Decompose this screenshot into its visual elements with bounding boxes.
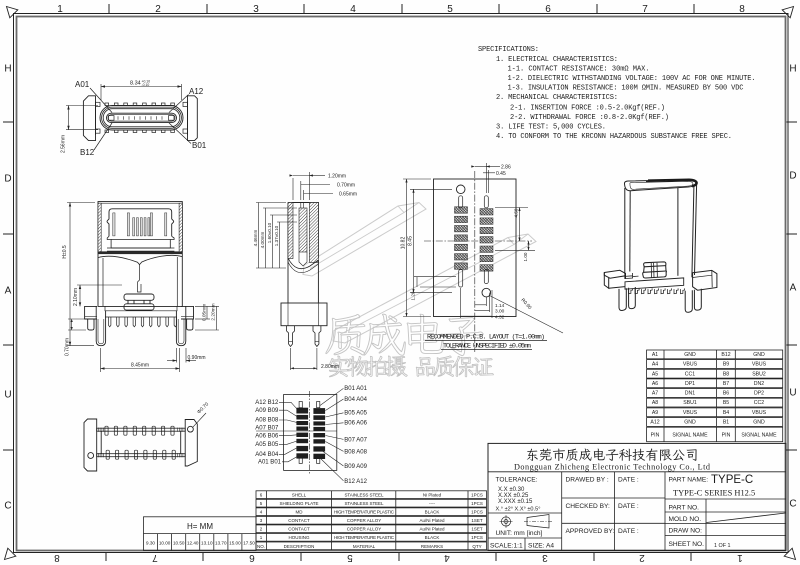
phi 0.70 label xyxy=(193,413,206,427)
svg-text:8.45: 8.45 xyxy=(408,236,414,246)
top pin row xyxy=(105,426,174,435)
tongue latch right xyxy=(169,116,175,121)
svg-text:VBUS: VBUS xyxy=(683,410,698,416)
svg-text:-0.10: -0.10 xyxy=(142,83,150,87)
svg-text:SIGNAL NAME: SIGNAL NAME xyxy=(741,433,777,439)
svg-text:DP2: DP2 xyxy=(754,391,764,397)
svg-text:13.10: 13.10 xyxy=(201,541,213,546)
iso left flange xyxy=(604,270,625,278)
svg-text:A9: A9 xyxy=(652,410,658,416)
svg-text:4.50: 4.50 xyxy=(514,208,519,217)
svg-text:DRAW NO:: DRAW NO: xyxy=(669,528,703,535)
break curve xyxy=(288,258,318,269)
svg-text:B01: B01 xyxy=(192,141,207,150)
svg-text:1-3. INSULATION RESISTANCE: 10: 1-3. INSULATION RESISTANCE: 100M ΩMIN. M… xyxy=(508,85,744,93)
shell right wall hatched xyxy=(179,203,182,252)
corner mark BL xyxy=(5,548,16,559)
svg-text:A8: A8 xyxy=(652,400,658,406)
dim 2.80 bottom xyxy=(291,348,340,370)
right mount bracket xyxy=(188,96,198,141)
projection symbol xyxy=(500,515,553,529)
svg-text:1.60±0.10: 1.60±0.10 xyxy=(267,222,272,243)
shell top weld bumps xyxy=(105,103,174,133)
svg-text:B01 A01: B01 A01 xyxy=(344,386,367,392)
svg-text:1.20mm: 1.20mm xyxy=(328,174,346,180)
svg-text:DN1: DN1 xyxy=(685,391,695,397)
dim 0.90 xyxy=(167,348,206,363)
left bracket tabs xyxy=(96,102,101,106)
svg-text:H: H xyxy=(789,64,796,75)
svg-text:9.30: 9.30 xyxy=(146,541,155,546)
BOM material table xyxy=(256,491,487,499)
svg-text:3.00: 3.00 xyxy=(495,309,505,315)
svg-text:B6: B6 xyxy=(723,391,729,397)
center contact tail xyxy=(138,265,142,292)
svg-text:A6: A6 xyxy=(652,381,658,387)
svg-text:A07 B07: A07 B07 xyxy=(255,425,279,431)
svg-text:H: H xyxy=(4,64,11,75)
svg-text:1PCS: 1PCS xyxy=(471,501,483,506)
dim 8.45 xyxy=(101,348,180,372)
pin assignment table xyxy=(647,350,783,359)
svg-text:U: U xyxy=(789,388,796,399)
svg-text:1PCS: 1PCS xyxy=(471,510,483,515)
svg-text:SIZE: A4: SIZE: A4 xyxy=(528,543,554,550)
svg-text:10.00: 10.00 xyxy=(159,541,171,546)
svg-text:NO.: NO. xyxy=(257,544,265,549)
pinmap top stubs xyxy=(299,402,302,408)
svg-text:B12 A12: B12 A12 xyxy=(344,479,367,485)
pinmap bottom stubs xyxy=(299,457,302,463)
pinmap centerline xyxy=(309,391,311,474)
svg-text:DRAWED BY :: DRAWED BY : xyxy=(566,477,609,484)
svg-text:A04 B04: A04 B04 xyxy=(255,452,279,458)
svg-text:SHIELDING PLATE: SHIELDING PLATE xyxy=(280,501,319,506)
svg-text:2.80mm: 2.80mm xyxy=(321,364,339,370)
dim 0.70 xyxy=(65,319,87,356)
svg-text:SIGNAL NAME: SIGNAL NAME xyxy=(672,433,708,439)
svg-text:2.56mm: 2.56mm xyxy=(61,135,67,153)
svg-text:TOLERANCE:: TOLERANCE: xyxy=(496,477,538,484)
svg-text:A05 B05: A05 B05 xyxy=(255,442,279,448)
base comb plate xyxy=(105,306,177,310)
iso top dark edge xyxy=(648,180,697,186)
svg-text:10.82: 10.82 xyxy=(401,237,407,250)
svg-text:SPECIFICATIONS:: SPECIFICATIONS: xyxy=(478,46,539,54)
inner housing xyxy=(107,209,174,237)
svg-text:GND: GND xyxy=(684,352,696,358)
svg-text:CHECKED BY:: CHECKED BY: xyxy=(566,503,611,510)
pcb outline xyxy=(434,179,517,317)
svg-text:A1: A1 xyxy=(652,352,658,358)
svg-text:A01 B01: A01 B01 xyxy=(258,460,282,466)
svg-text:STAINLESS STEEL: STAINLESS STEEL xyxy=(345,493,384,498)
part name cells xyxy=(665,498,786,500)
svg-text:4.46mm: 4.46mm xyxy=(253,230,258,247)
svg-text:Dongguan Zhicheng Electronic T: Dongguan Zhicheng Electronic Technology … xyxy=(514,462,710,471)
svg-text:STAINLESS STEEL: STAINLESS STEEL xyxy=(345,501,384,506)
watermark text subtitle xyxy=(329,356,493,377)
svg-text:A7: A7 xyxy=(652,391,658,397)
title block outline xyxy=(488,443,786,550)
svg-text:A12: A12 xyxy=(189,87,204,96)
svg-text:HIGH TEMPERATURE PLASTIC: HIGH TEMPERATURE PLASTIC xyxy=(334,535,395,540)
comb teeth xyxy=(109,317,177,327)
iso top face xyxy=(624,180,696,191)
svg-text:4: 4 xyxy=(444,552,450,563)
shell outline xyxy=(98,202,182,307)
svg-text:0.90mm: 0.90mm xyxy=(188,355,206,361)
svg-text:C: C xyxy=(4,501,11,512)
svg-text:2-2. WITHDRAWAL FORCE :0.8-2.0: 2-2. WITHDRAWAL FORCE :0.8-2.0Kgf(REF.) xyxy=(510,114,669,122)
corner mark TR xyxy=(782,7,793,18)
top view tongue xyxy=(107,113,177,122)
svg-text:B8: B8 xyxy=(723,371,729,377)
right pad column xyxy=(480,209,493,272)
iso left front edges xyxy=(624,188,626,274)
svg-text:DATE :: DATE : xyxy=(618,503,639,510)
left zone letters xyxy=(4,64,11,512)
svg-text:X.XXX ±0.15: X.XXX ±0.15 xyxy=(498,499,533,505)
svg-text:MOLD NO.: MOLD NO. xyxy=(669,516,702,523)
svg-text:B7: B7 xyxy=(723,381,729,387)
svg-text:SBU2: SBU2 xyxy=(752,371,766,377)
svg-text:APPROVED BY:: APPROVED BY: xyxy=(566,528,615,535)
top view shell stadium xyxy=(100,106,183,131)
svg-text:6: 6 xyxy=(545,4,551,15)
svg-text:QTY: QTY xyxy=(472,544,481,549)
svg-text:10.50: 10.50 xyxy=(173,541,185,546)
svg-text:1-1. CONTACT RESISTANCE: 30mΩ: 1-1. CONTACT RESISTANCE: 30mΩ MAX. xyxy=(508,65,650,73)
svg-text:DN2: DN2 xyxy=(754,381,764,387)
left bottom hole slot xyxy=(459,270,463,288)
svg-text:X.° ±2° X.X° ±0.5°: X.° ±2° X.X° ±0.5° xyxy=(496,507,541,513)
svg-text:1: 1 xyxy=(737,552,743,563)
corner mark TL xyxy=(7,7,18,18)
left wing foot xyxy=(88,319,94,330)
svg-text:15.00: 15.00 xyxy=(229,541,241,546)
svg-text:TYPE-C SERIES H12.5: TYPE-C SERIES H12.5 xyxy=(673,489,755,498)
right bracket tabs xyxy=(183,102,188,106)
iso top rim ticks xyxy=(646,180,668,183)
svg-text:PIN: PIN xyxy=(651,433,660,439)
svg-text:DESCRIPTION: DESCRIPTION xyxy=(284,544,315,549)
left pin xyxy=(287,326,295,347)
svg-text:5: 5 xyxy=(447,4,453,15)
svg-text:DATE :: DATE : xyxy=(618,528,639,535)
center contact hatched xyxy=(299,208,307,252)
svg-text:U: U xyxy=(4,390,11,401)
svg-text:----: ---- xyxy=(429,501,435,506)
svg-text:0.05mm: 0.05mm xyxy=(202,304,208,321)
svg-text:2.10mm: 2.10mm xyxy=(73,288,79,306)
svg-text:B08 A08: B08 A08 xyxy=(344,449,367,455)
svg-text:PIN: PIN xyxy=(722,433,731,439)
svg-text:UNIT: mm [inch]: UNIT: mm [inch] xyxy=(496,530,543,537)
iso ladder component xyxy=(643,262,667,278)
svg-text:1.14: 1.14 xyxy=(495,303,505,309)
dims bottom 1.14 3.00 4.32 xyxy=(461,288,505,320)
svg-text:12.40: 12.40 xyxy=(187,541,199,546)
svg-text:A5: A5 xyxy=(652,371,658,377)
svg-text:B09 A09: B09 A09 xyxy=(344,464,367,470)
svg-text:HIGH TEMPERATURE PLASTIC: HIGH TEMPERATURE PLASTIC xyxy=(334,510,395,515)
pinmap left labels xyxy=(255,400,281,466)
break wavy line xyxy=(98,255,182,264)
dim 10.82 8.45 left xyxy=(401,179,453,317)
top zone ticks xyxy=(109,4,694,14)
bottom zone ticks xyxy=(106,553,691,562)
svg-text:1: 1 xyxy=(57,4,63,15)
svg-text:PART NO.: PART NO. xyxy=(669,505,700,512)
R0.90 leader xyxy=(490,296,564,334)
svg-text:3: 3 xyxy=(542,552,548,563)
svg-text:C: C xyxy=(789,499,796,510)
company name english xyxy=(514,462,710,471)
svg-text:A01: A01 xyxy=(75,80,90,89)
dims left 4.46 4.00 1.60 1.37 xyxy=(253,203,297,269)
pinmap right pads xyxy=(313,408,325,459)
svg-text:1SET: 1SET xyxy=(471,527,483,532)
svg-text:A: A xyxy=(790,283,797,294)
svg-text:2: 2 xyxy=(639,552,645,563)
housing pins short xyxy=(133,218,150,236)
svg-text:SBU1: SBU1 xyxy=(683,400,697,406)
svg-text:1PCS: 1PCS xyxy=(471,535,483,540)
svg-text:COPPER ALLOY: COPPER ALLOY xyxy=(347,527,382,532)
right wing foot xyxy=(187,319,193,330)
label B12 xyxy=(80,148,95,157)
svg-text:VBUS: VBUS xyxy=(683,362,698,368)
mold cell diagonal xyxy=(707,513,786,523)
svg-text:CC1: CC1 xyxy=(685,371,695,377)
dim 8.34 xyxy=(101,84,182,100)
dim 2.56 xyxy=(66,106,98,130)
right zone ticks xyxy=(787,122,798,450)
tongue center marks xyxy=(118,116,162,119)
svg-text:B12: B12 xyxy=(721,352,730,358)
housing base tray xyxy=(107,236,174,248)
dim 1.20 left bottom xyxy=(411,277,457,301)
svg-text:GND: GND xyxy=(684,420,696,426)
svg-text:A12: A12 xyxy=(650,420,659,426)
svg-text:1.00: 1.00 xyxy=(523,252,528,261)
svg-text:8.34: 8.34 xyxy=(130,81,141,87)
svg-text:B5: B5 xyxy=(723,400,729,406)
svg-text:A09 B09: A09 B09 xyxy=(255,408,279,414)
svg-text:B07 A07: B07 A07 xyxy=(344,437,367,443)
svg-text:B4: B4 xyxy=(723,410,729,416)
left leg xyxy=(96,306,105,345)
pcb horizontal centerline xyxy=(424,240,532,242)
signature rows xyxy=(613,472,615,551)
dim 2.10 xyxy=(73,285,122,306)
housing pins tall xyxy=(113,213,167,236)
svg-text:0.65mm: 0.65mm xyxy=(339,192,357,198)
svg-text:8.45mm: 8.45mm xyxy=(131,363,149,369)
right bottom circle xyxy=(482,288,491,297)
iso right legs xyxy=(685,290,692,312)
svg-text:3. LIFE TEST: 5,000 CYCLES.: 3. LIFE TEST: 5,000 CYCLES. xyxy=(496,124,606,132)
svg-text:MD: MD xyxy=(296,510,304,515)
pcb vertical centerline xyxy=(474,171,476,352)
left mount bracket xyxy=(83,96,95,141)
svg-text:1PCS: 1PCS xyxy=(471,493,483,498)
top zone numbers xyxy=(57,4,745,15)
bottom zone numbers (rotated) xyxy=(54,552,743,563)
svg-text:SHELL: SHELL xyxy=(292,493,307,498)
bobbin component xyxy=(124,294,154,300)
svg-text:1.20: 1.20 xyxy=(411,291,416,300)
svg-text:2.86: 2.86 xyxy=(501,165,511,171)
right wall hatched xyxy=(309,203,318,263)
svg-text:7: 7 xyxy=(152,552,158,563)
svg-text:1-2. DIELECTRIC WITHSTANDING V: 1-2. DIELECTRIC WITHSTANDING VOLTAGE: 10… xyxy=(508,75,756,83)
dims top 1.20 0.70 0.65 xyxy=(290,172,358,200)
svg-text:4: 4 xyxy=(350,4,356,15)
contact pin lines to top xyxy=(300,203,302,209)
svg-text:0.70mm: 0.70mm xyxy=(65,338,71,356)
svg-text:A: A xyxy=(5,286,12,297)
svg-text:1 OF 1: 1 OF 1 xyxy=(714,543,730,549)
svg-text:GND: GND xyxy=(753,420,765,426)
svg-text:DATE :: DATE : xyxy=(618,477,639,484)
svg-text:MATERIAL: MATERIAL xyxy=(353,544,376,549)
svg-text:H= MM: H= MM xyxy=(187,522,213,531)
svg-text:CC2: CC2 xyxy=(754,400,764,406)
svg-text:2.20mm: 2.20mm xyxy=(211,303,217,320)
iso base rail with pin comb xyxy=(625,278,684,289)
svg-text:BLACK: BLACK xyxy=(425,510,440,515)
svg-text:B04 A04: B04 A04 xyxy=(344,397,367,403)
svg-text:TYPE-C: TYPE-C xyxy=(711,474,753,486)
svg-text:D: D xyxy=(4,174,11,185)
body side inner lines xyxy=(102,258,104,306)
bottom view right flange hole xyxy=(188,426,194,432)
svg-text:VBUS: VBUS xyxy=(752,362,767,368)
svg-text:2: 2 xyxy=(155,4,161,15)
svg-text:REMARKS: REMARKS xyxy=(421,544,443,549)
company name chinese xyxy=(527,448,697,461)
right leg xyxy=(176,306,185,345)
watermark text zhicheng large xyxy=(326,314,483,355)
svg-text:SHEET NO.: SHEET NO. xyxy=(669,541,705,548)
iso right front edge xyxy=(677,188,679,276)
iso right back edges xyxy=(692,187,694,277)
corner mark BR xyxy=(784,548,795,559)
right pin xyxy=(313,326,321,347)
svg-text:COPPER ALLOY: COPPER ALLOY xyxy=(347,518,382,523)
dim 4.50 1.00 right xyxy=(495,208,535,262)
H dimension option table xyxy=(144,517,257,551)
watermark logo ribbon lower xyxy=(333,234,536,343)
svg-text:2-1. INSERTION FORCE :0.5-2.0K: 2-1. INSERTION FORCE :0.5-2.0Kgf(REF.) xyxy=(510,104,665,112)
bottom view center body xyxy=(100,431,102,454)
left wall hatched xyxy=(288,203,293,259)
svg-text:3: 3 xyxy=(253,4,259,15)
watermark logo ribbon upper xyxy=(303,203,426,277)
svg-text:6: 6 xyxy=(249,552,255,563)
thick band xyxy=(98,251,182,254)
svg-text:HOUSING: HOUSING xyxy=(288,535,310,540)
svg-text:DP1: DP1 xyxy=(685,381,695,387)
iso left legs xyxy=(619,288,626,310)
svg-text:4.00mm: 4.00mm xyxy=(260,232,265,249)
svg-text:Au/Ni Plated: Au/Ni Plated xyxy=(419,518,445,523)
right top hole slot xyxy=(484,196,488,208)
tray lower lip xyxy=(107,248,174,251)
right bottom hole slot xyxy=(484,270,488,284)
svg-text:CONTACT: CONTACT xyxy=(288,518,310,523)
svg-text:B9: B9 xyxy=(723,362,729,368)
svg-text:A4: A4 xyxy=(652,362,658,368)
svg-text:1. ELECTRICAL CHARACTERISTICS:: 1. ELECTRICAL CHARACTERISTICS: xyxy=(496,56,618,64)
svg-text:1SET: 1SET xyxy=(471,518,483,523)
svg-text:B05 A05: B05 A05 xyxy=(344,411,367,417)
svg-text:13.70: 13.70 xyxy=(215,541,227,546)
dim 0.05 / 2.20 right xyxy=(195,303,219,330)
svg-text:SCALE:1:1: SCALE:1:1 xyxy=(490,543,523,550)
label A01 xyxy=(75,80,90,89)
iso left bottom step xyxy=(625,273,639,279)
pinmap left pads xyxy=(296,408,308,459)
svg-text:H±0.5: H±0.5 xyxy=(62,245,68,259)
bottom view top rail xyxy=(97,428,186,431)
svg-text:B06 A06: B06 A06 xyxy=(344,421,367,427)
iso right flange xyxy=(693,270,717,290)
svg-text:17.50: 17.50 xyxy=(243,541,255,546)
svg-text:8: 8 xyxy=(739,4,745,15)
svg-text:A12 B12: A12 B12 xyxy=(255,400,279,406)
svg-text:B1: B1 xyxy=(723,420,729,426)
svg-text:0.70mm: 0.70mm xyxy=(337,183,355,189)
svg-text:4.32: 4.32 xyxy=(495,314,505,320)
left zone ticks xyxy=(3,122,14,450)
svg-text:A08 B08: A08 B08 xyxy=(255,418,279,424)
svg-text:CONTACT: CONTACT xyxy=(288,527,310,532)
pcb caption xyxy=(427,334,545,351)
side view tube outline xyxy=(288,203,318,261)
dim H height xyxy=(62,203,95,346)
pinmap outline xyxy=(284,395,337,471)
right wing xyxy=(181,306,194,319)
svg-text:PART NAME:: PART NAME: xyxy=(669,477,709,484)
svg-text:7: 7 xyxy=(642,4,648,15)
svg-text:1.37±0.10: 1.37±0.10 xyxy=(274,225,279,246)
svg-text:5: 5 xyxy=(347,552,353,563)
svg-text:A06 B06: A06 B06 xyxy=(255,433,279,439)
bottom view left flange xyxy=(84,419,97,471)
left pad column xyxy=(455,207,468,269)
left top hole slot xyxy=(459,196,463,208)
pinmap right labels xyxy=(344,386,367,485)
svg-text:2. MECHANICAL CHARACTERISTICS:: 2. MECHANICAL CHARACTERISTICS: xyxy=(496,94,618,102)
svg-text:8: 8 xyxy=(54,552,60,563)
bottom pin row xyxy=(106,450,175,459)
label B01 xyxy=(192,141,207,150)
right zone letters xyxy=(789,64,796,510)
rail end beads xyxy=(98,428,183,458)
svg-text:GND: GND xyxy=(753,352,765,358)
bottom view bottom rail xyxy=(97,454,186,457)
svg-text:B12: B12 xyxy=(80,148,95,157)
svg-text:Au/Ni Plated: Au/Ni Plated xyxy=(419,527,445,532)
svg-text:Ni Plated: Ni Plated xyxy=(423,493,442,498)
pinmap left leaders xyxy=(256,402,337,462)
svg-text:4. TO CONFORM TO THE KRCONN HA: 4. TO CONFORM TO THE KRCONN HAZARDOUS SU… xyxy=(496,133,732,141)
svg-text:D: D xyxy=(789,171,796,182)
base block xyxy=(281,303,327,326)
